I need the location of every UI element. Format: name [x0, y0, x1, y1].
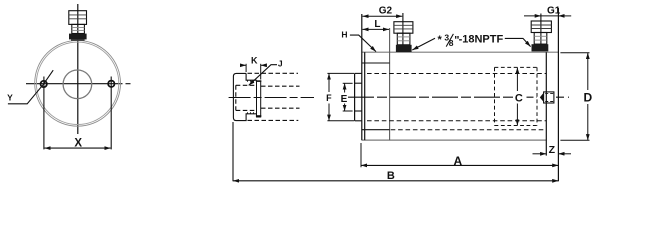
svg-text:-18NPTF: -18NPTF — [459, 34, 504, 46]
port thread note text — [438, 32, 504, 48]
L dimension line with arrows — [363, 28, 390, 30]
left bolt hole — [41, 81, 47, 87]
plug hidden thread bottom (dashed) — [545, 101, 554, 103]
fitting threaded body — [72, 24, 85, 33]
tube top edge (gray) — [362, 51, 559, 53]
svg-text:J: J — [278, 59, 283, 69]
collar front face — [354, 73, 356, 120]
body left edge second line — [364, 52, 366, 140]
F dimension line upper with arrow — [328, 73, 330, 92]
nut plate top cap — [256, 80, 261, 82]
right port fitting on side view — [531, 14, 551, 52]
rod boss bottom edge — [355, 110, 362, 112]
G2 dimension line with arrows — [363, 15, 403, 17]
J leader line with arrow — [249, 65, 277, 86]
svg-text:C: C — [515, 92, 523, 104]
E extension line top — [343, 82, 353, 84]
E dimension — [343, 83, 353, 111]
head inner line bottom — [362, 129, 390, 131]
svg-text:G1: G1 — [547, 6, 561, 17]
F extension line bottom — [327, 120, 354, 122]
hidden rod line upper (dashed, right of nut) — [261, 85, 300, 87]
hidden C square top (dashed) — [495, 66, 538, 68]
C dimension (vertical, in hidden square) — [516, 67, 518, 125]
fitting base (dark) — [396, 45, 412, 52]
hidden top line continuation (dashed) — [248, 72, 299, 74]
K dimension extension line right — [260, 64, 262, 80]
G1 dimension: span line — [541, 15, 559, 17]
body left edge / extension line up to G2 — [361, 14, 363, 140]
Z dimension: right piece with arrow — [558, 153, 571, 155]
fitting body — [397, 33, 410, 45]
plug body — [544, 92, 554, 103]
left port fitting on side view — [394, 13, 413, 52]
F dimension line lower with arrow — [328, 104, 330, 121]
G1 dimension: right outside piece with arrow — [558, 15, 571, 17]
hidden thread hole: bottom line (dashed) — [236, 109, 257, 111]
right bolt hole — [108, 81, 114, 87]
X dimension line with arrows — [45, 147, 111, 149]
Z dimension: left piece with arrow — [533, 153, 547, 155]
Y leader line — [8, 70, 53, 104]
port fitting on front view — [69, 11, 87, 41]
thread crest ticks (bottom) — [248, 112, 257, 114]
hidden rod line lower (dashed, right of nut) — [261, 107, 300, 109]
D extension line bottom — [560, 139, 589, 141]
D dimension line lower with arrow — [587, 104, 589, 140]
fitting body thread lines — [72, 27, 85, 29]
D dimension — [560, 53, 589, 141]
E dimension line lower with arrow — [344, 104, 346, 112]
svg-text:A: A — [453, 154, 462, 168]
nut plate bottom cap — [256, 115, 261, 117]
end plug at cap center — [540, 92, 554, 103]
flange outer circle — [35, 40, 121, 126]
bore hidden line top (dashed) — [367, 73, 546, 75]
svg-text:F: F — [326, 93, 332, 103]
plug hidden thread top (dashed) — [545, 92, 554, 94]
fitting head facet lines — [69, 14, 87, 16]
C dimension line upper with arrow — [516, 67, 518, 91]
K dimension line right piece with arrow — [261, 64, 267, 66]
svg-text:B: B — [387, 170, 395, 182]
head weld line / L extension — [389, 28, 391, 140]
B dimension line with arrows — [233, 180, 558, 182]
fitting head — [394, 22, 413, 34]
tube end line / Z extension — [545, 52, 547, 155]
svg-text:X: X — [74, 137, 82, 149]
collar top edge — [355, 72, 362, 74]
rod boss top edge — [355, 82, 362, 84]
horizontal centerline through bolt holes — [26, 83, 123, 85]
tube bottom edge (gray) — [362, 139, 547, 141]
vertical centerline of front view — [77, 4, 79, 134]
fitting centerline / G2 extension — [402, 13, 404, 45]
fitting head — [69, 11, 87, 25]
fitting body — [534, 33, 547, 45]
svg-text:Z: Z — [549, 144, 556, 156]
stop nut plate — [257, 81, 261, 117]
svg-text:K: K — [251, 55, 258, 65]
C dimension line lower with arrow — [516, 104, 518, 126]
K dimension extension line left — [245, 64, 247, 72]
hidden thread hole: top line (dashed) — [236, 84, 257, 86]
fitting base (dark) — [532, 44, 549, 51]
svg-text:G2: G2 — [379, 6, 393, 17]
D dimension line upper with arrow — [587, 53, 589, 90]
hidden thread hole: left end vertical (dashed) — [235, 85, 237, 110]
right bolt hole vertical crosshair / X extension line — [110, 77, 112, 150]
E dimension line upper with arrow — [344, 83, 346, 92]
base hidden line (dashed) — [391, 129, 547, 131]
F extension line top — [327, 72, 354, 74]
A dimension line with arrows — [361, 164, 558, 166]
svg-text:*: * — [438, 34, 443, 46]
K dimension line left piece with arrow — [240, 64, 246, 66]
fitting base (dark) — [69, 34, 87, 40]
svg-text:D: D — [583, 91, 592, 105]
fitting centerline / G1 extension — [540, 14, 542, 46]
bore hidden line bottom (dashed) — [367, 120, 546, 122]
svg-text:8: 8 — [449, 38, 454, 48]
port thread note: leader to right fitting — [505, 38, 531, 46]
head inner line top — [362, 62, 390, 64]
hidden C square bottom (dashed) — [495, 125, 538, 127]
port thread note: leader to left fitting — [412, 38, 435, 50]
left bolt hole vertical crosshair / X extension line — [43, 77, 45, 150]
hidden bottom line continuation (dashed) — [248, 119, 299, 121]
fitting head — [531, 21, 551, 33]
plug nose cone — [540, 93, 544, 102]
D extension line top — [560, 52, 589, 54]
svg-text:H: H — [341, 30, 347, 40]
svg-text:L: L — [374, 19, 380, 30]
rod end centerline — [229, 97, 314, 99]
main centerline — [348, 96, 514, 98]
A dimension: left extension line — [360, 143, 362, 167]
flange inner rim circle — [36, 42, 118, 124]
horizontal centerline end dash — [126, 83, 131, 85]
thread crest ticks (top) — [248, 80, 257, 82]
cap right edge / G1,B extension — [557, 8, 559, 181]
B left extension line — [232, 122, 234, 181]
F dimension — [327, 73, 354, 120]
center hole circle — [63, 70, 92, 99]
G1 dimension: left outside piece with arrow — [524, 15, 541, 17]
rod end block outline — [233, 73, 256, 120]
svg-text:E: E — [341, 94, 348, 105]
hidden C square right (dashed) — [536, 67, 538, 125]
svg-text:Y: Y — [7, 93, 13, 103]
H leader line with arrow — [350, 35, 376, 52]
hidden C square left (dashed) — [494, 67, 496, 125]
collar bottom edge — [355, 120, 362, 122]
E extension line bottom — [343, 110, 353, 112]
